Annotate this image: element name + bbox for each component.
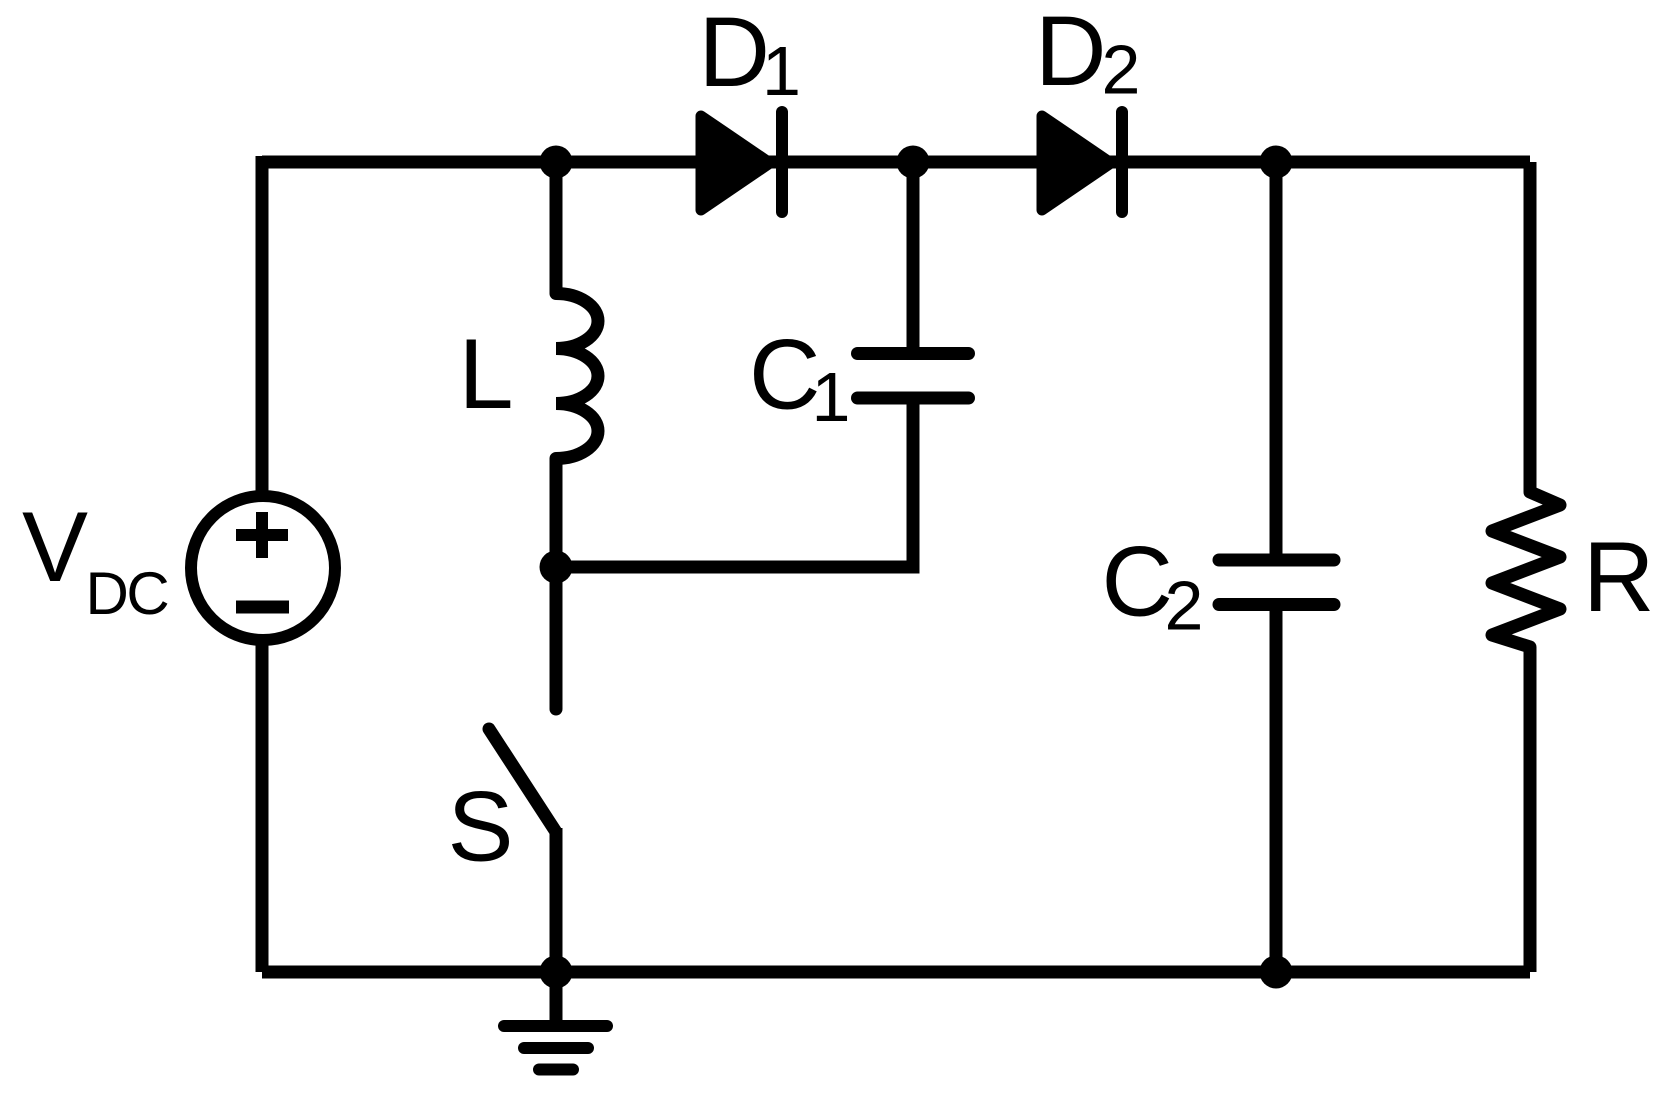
capacitor C2 bbox=[1219, 560, 1334, 605]
svg-text:DC: DC bbox=[86, 560, 169, 627]
svg-text:C: C bbox=[1102, 526, 1174, 637]
wire node B to C1 bottom bbox=[556, 398, 913, 567]
wire left rail lower bbox=[256, 641, 269, 972]
svg-text:1: 1 bbox=[812, 358, 851, 436]
wire right rail lower bbox=[1524, 654, 1537, 972]
svg-text:D: D bbox=[699, 0, 771, 107]
wire switch bottom lead bbox=[550, 828, 563, 972]
wire inductor top lead bbox=[550, 162, 563, 294]
svg-text:1: 1 bbox=[762, 32, 801, 110]
svg-text:2: 2 bbox=[1102, 31, 1141, 109]
ground bbox=[504, 972, 607, 1070]
node C2 bottom bbox=[1260, 956, 1293, 989]
node D2 cathode / C2 top bbox=[1260, 146, 1293, 179]
svg-text:C: C bbox=[749, 319, 821, 430]
node top of L bbox=[540, 146, 573, 179]
node bottom of L bbox=[540, 551, 573, 584]
node switch / ground bbox=[540, 956, 573, 989]
wire C2 bottom lead bbox=[1270, 605, 1283, 973]
switch S upper terminal bbox=[550, 567, 563, 709]
diode D2 bbox=[1042, 112, 1122, 212]
svg-text:2: 2 bbox=[1165, 567, 1204, 645]
capacitor C1 bbox=[858, 162, 969, 398]
voltage source VDC bbox=[191, 496, 335, 640]
wire left rail upper bbox=[256, 156, 269, 495]
wire right rail upper bbox=[1524, 162, 1537, 485]
wire inductor bottom lead bbox=[550, 459, 563, 568]
resistor R bbox=[1492, 480, 1560, 660]
svg-text:D: D bbox=[1035, 0, 1107, 106]
svg-text:L: L bbox=[459, 318, 514, 429]
svg-text:S: S bbox=[448, 771, 514, 882]
wire top rail bbox=[262, 156, 1530, 169]
node D1 cathode / C1 top bbox=[897, 146, 930, 179]
wire bottom rail bbox=[262, 966, 1530, 979]
diode D1 bbox=[701, 112, 782, 212]
switch S blade bbox=[489, 729, 556, 832]
inductor L bbox=[556, 294, 598, 459]
wire C2 top lead bbox=[1270, 162, 1283, 554]
svg-text:R: R bbox=[1583, 521, 1655, 632]
svg-text:V: V bbox=[22, 491, 88, 602]
